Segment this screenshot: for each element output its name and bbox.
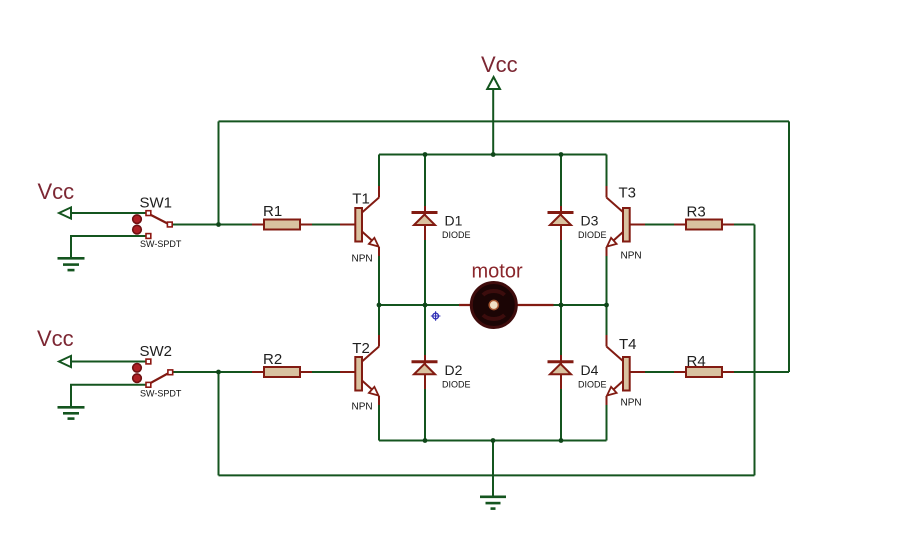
node Vcc drop on Vcc rail bbox=[491, 152, 496, 157]
ground symbol below SW1 bbox=[58, 258, 85, 270]
svg-text:R2: R2 bbox=[263, 351, 282, 368]
transistor T2 NPN bbox=[340, 335, 379, 413]
diode D4 bbox=[548, 355, 607, 390]
resistor R1 bbox=[252, 203, 312, 230]
svg-text:NPN: NPN bbox=[621, 251, 642, 262]
wire SW2 riser to bottom rail bbox=[218, 372, 220, 475]
node D3 top on Vcc rail bbox=[559, 152, 564, 157]
wire D1 column bbox=[424, 155, 426, 306]
transistor T1 NPN bbox=[340, 186, 379, 265]
transistor T3 NPN (mirrored) bbox=[607, 185, 646, 262]
transistor T4 NPN (mirrored) bbox=[607, 335, 646, 409]
wire inner bottom rail bbox=[379, 440, 607, 442]
svg-text:T4: T4 bbox=[619, 336, 637, 353]
wire outer bottom rail bbox=[219, 474, 755, 476]
svg-text:Vcc: Vcc bbox=[481, 52, 518, 77]
svg-text:Vcc: Vcc bbox=[38, 179, 75, 204]
diode D2 bbox=[412, 355, 471, 390]
node D3/D4 on motor rail bbox=[559, 303, 564, 308]
wire outer top rail bbox=[219, 120, 790, 122]
svg-text:DIODE: DIODE bbox=[442, 380, 471, 390]
node D1/D2 on motor rail bbox=[423, 303, 428, 308]
svg-text:motor: motor bbox=[472, 261, 523, 283]
motor M bbox=[459, 261, 554, 328]
switch SW2 SW-SPDT bbox=[133, 343, 182, 399]
svg-text:DIODE: DIODE bbox=[578, 230, 607, 240]
node D4 bottom on lower rail bbox=[559, 438, 564, 443]
svg-text:Vcc: Vcc bbox=[37, 326, 74, 351]
svg-text:T3: T3 bbox=[619, 185, 637, 202]
svg-text:T2: T2 bbox=[352, 340, 370, 357]
wire ground drop from bottom rail bbox=[492, 441, 494, 497]
wire SW2 output to R2 to T2 base bbox=[171, 371, 340, 373]
wire SW2 input from Vcc flag bbox=[70, 361, 146, 363]
wire SW1 output to R1 to T1 base bbox=[171, 224, 340, 226]
wire inner top Vcc rail bbox=[379, 154, 607, 156]
svg-text:R1: R1 bbox=[263, 203, 282, 220]
wire D4 column bbox=[560, 305, 562, 441]
resistor R3 bbox=[674, 204, 734, 230]
wire right riser top rail to R4 bbox=[788, 121, 790, 372]
wire left riser SW1 to top rail bbox=[218, 121, 220, 224]
svg-text:D4: D4 bbox=[581, 362, 599, 378]
power flag Vcc left bottom bbox=[37, 326, 74, 367]
ground symbol bottom center bbox=[480, 497, 506, 509]
wire T1 emitter drop bbox=[378, 247, 380, 305]
wire SW2 ground branch bbox=[71, 384, 146, 406]
wire T1 collector riser bbox=[378, 155, 380, 197]
node T3 emitter / T4 collector / motor right bbox=[604, 303, 609, 308]
wire T4 collector riser bbox=[606, 305, 608, 345]
svg-text:NPN: NPN bbox=[352, 254, 373, 265]
svg-text:DIODE: DIODE bbox=[442, 230, 471, 240]
wire T3 collector riser bbox=[606, 155, 608, 197]
node SW1 output / top rail junction bbox=[216, 222, 221, 227]
wire D2 column bbox=[424, 305, 426, 441]
wire SW1 ground branch bbox=[71, 235, 146, 257]
svg-text:R3: R3 bbox=[687, 204, 706, 221]
power flag Vcc left top bbox=[38, 179, 75, 219]
svg-text:DIODE: DIODE bbox=[578, 380, 607, 390]
node ground drop on lower rail bbox=[491, 438, 496, 443]
resistor R4 bbox=[674, 353, 734, 377]
svg-text:R4: R4 bbox=[687, 353, 706, 370]
wire right mid riser R3 to bottom rail bbox=[754, 225, 756, 476]
svg-text:SW-SPDT: SW-SPDT bbox=[140, 389, 182, 399]
svg-text:T1: T1 bbox=[352, 191, 370, 208]
wire SW1 input from Vcc flag bbox=[70, 212, 146, 214]
diode D1 bbox=[412, 206, 471, 240]
wire T2 emitter drop bbox=[378, 396, 380, 441]
wire T2 collector riser bbox=[378, 305, 380, 343]
node D2 bottom on lower rail bbox=[423, 438, 428, 443]
node SW2 output / bottom rail junction bbox=[216, 370, 221, 375]
diode D3 bbox=[548, 206, 607, 240]
wire T3 emitter drop bbox=[606, 247, 608, 305]
origin marker (blue crosshair) bbox=[431, 311, 441, 321]
svg-text:SW1: SW1 bbox=[140, 195, 173, 212]
wire middle motor rail bbox=[379, 304, 607, 306]
ground symbol below SW2 bbox=[58, 407, 85, 418]
wire D3 column bbox=[560, 155, 562, 306]
svg-text:NPN: NPN bbox=[621, 398, 642, 409]
svg-text:D2: D2 bbox=[445, 362, 463, 378]
svg-text:D3: D3 bbox=[581, 213, 599, 229]
svg-text:SW-SPDT: SW-SPDT bbox=[140, 239, 182, 249]
switch SW1 SW-SPDT bbox=[133, 195, 182, 250]
wire T4 emitter drop bbox=[606, 396, 608, 441]
wire T4 base to R4 bbox=[643, 371, 789, 373]
svg-text:NPN: NPN bbox=[352, 402, 373, 413]
node D1 top on Vcc rail bbox=[423, 152, 428, 157]
node T1 emitter / T2 collector / motor left bbox=[377, 303, 382, 308]
wire T3 base to R3 bbox=[643, 224, 755, 226]
power flag Vcc top center bbox=[481, 52, 518, 155]
resistor R2 bbox=[252, 351, 312, 377]
svg-text:D1: D1 bbox=[445, 213, 463, 229]
svg-text:SW2: SW2 bbox=[140, 343, 173, 360]
